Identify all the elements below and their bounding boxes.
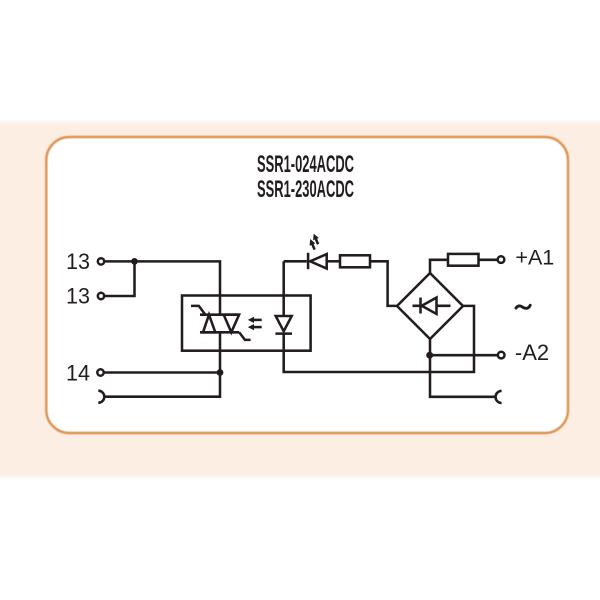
svg-text:14: 14: [66, 360, 90, 385]
wire: R2 to +A1 terminal: [479, 259, 498, 262]
wire: terminal 14 to node J2: [104, 371, 220, 374]
panel: [46, 137, 568, 433]
wire: triac bottom through J2 down and left to jumper hook: [104, 332, 220, 396]
photodiode vertical top: [282, 261, 285, 316]
LED triangle: [310, 254, 327, 268]
triac gate hook bottom-right: [239, 332, 250, 340]
photodiode cathode bar: [275, 332, 292, 335]
wire: photodiode bottom down right up to bridge right vertex: [284, 306, 474, 372]
LED emission arrow 2 head: [310, 239, 316, 246]
light arrow 2 shaft: [253, 326, 262, 329]
bridge diode line: [413, 305, 451, 308]
wire: terminal 13a to triac top: [105, 261, 220, 314]
AC tilde symbol: [516, 305, 530, 308]
jumper hook right: [496, 391, 502, 403]
triac left triangle: [203, 315, 215, 333]
LED emission arrow 1 shaft: [316, 238, 319, 244]
node J1: [131, 258, 138, 265]
wire: terminal 13b up to node J1: [105, 261, 135, 296]
optocoupler box U1: [182, 296, 311, 351]
svg-text:+A1: +A1: [515, 245, 554, 269]
wire: R1 to bridge left vertex: [370, 261, 397, 306]
triac gate hook top-left: [191, 306, 205, 315]
wire: node J3 to -A2 terminal: [430, 354, 498, 357]
node J2: [217, 369, 224, 376]
photodiode triangle: [276, 316, 292, 331]
resistor R2: [448, 254, 479, 266]
light arrow 2 (opto) head: [248, 324, 254, 330]
triac main terminal lines: [200, 315, 239, 333]
terminal circle -A2: [498, 352, 505, 359]
svg-text:13: 13: [66, 249, 90, 274]
resistor R1: [340, 255, 370, 267]
LED emission arrow 2 shaft: [312, 244, 315, 250]
terminal circle +A1: [498, 256, 505, 263]
LED cathode bar: [307, 253, 310, 269]
light arrow 1 shaft: [253, 319, 262, 322]
wire: LED to resistor R1: [327, 260, 340, 263]
triac right triangle: [224, 315, 239, 333]
node J3: [426, 352, 433, 359]
wire: bridge bottom vertex down to jumper hook right: [430, 339, 496, 397]
light arrow 1 (opto) head: [248, 317, 254, 323]
bridge rectifier diamond: [397, 273, 463, 339]
svg-text:13: 13: [66, 283, 90, 308]
bridge diode cathode bar: [419, 298, 422, 314]
wire: bridge top vertex to resistor R2: [430, 260, 448, 273]
wire: LED branch horizontal: [284, 260, 307, 263]
LED emission arrow 1 head: [313, 234, 319, 241]
bridge diode triangle: [422, 298, 437, 314]
svg-text:SSR1-230ACDC: SSR1-230ACDC: [257, 176, 354, 203]
svg-text:-A2: -A2: [515, 340, 549, 365]
terminal circle 13b: [98, 293, 104, 299]
terminal circle 14: [97, 369, 103, 375]
terminal circle 13a: [98, 258, 104, 264]
jumper hook left: [98, 391, 104, 403]
svg-text:SSR1-024ACDC: SSR1-024ACDC: [257, 151, 354, 178]
